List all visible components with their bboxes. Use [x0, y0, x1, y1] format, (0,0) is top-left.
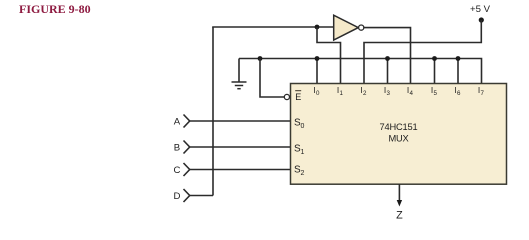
wire bus stub to pin I0 — [316, 59, 318, 84]
wire +5V to pin I2 — [364, 20, 481, 84]
pin label I2 — [360, 85, 367, 97]
svg-text:1: 1 — [340, 90, 344, 97]
wire ground bus to pin I7 — [239, 59, 482, 84]
inverter U1 output bubble — [359, 25, 364, 30]
svg-text:C: C — [174, 165, 181, 176]
+5 V terminal dot — [479, 17, 484, 22]
junction dot bus at enable tap — [258, 56, 263, 61]
pin label S1 — [294, 143, 305, 156]
op-amp U2 74HC151 MUX body — [291, 84, 507, 185]
svg-text:B: B — [174, 143, 180, 154]
wire D vertical rail — [212, 27, 214, 196]
wire bus stub to pin I5 — [434, 59, 436, 84]
pin label E bar — [295, 91, 301, 102]
figure caption FIGURE 9-80 — [19, 2, 91, 16]
wire C to S2 — [190, 169, 291, 171]
svg-text:+5 V: +5 V — [470, 4, 491, 15]
pin label I6 — [454, 85, 461, 97]
wire D top horizontal to inverter input — [212, 26, 334, 28]
wire bus stub to pin I6 — [457, 59, 459, 84]
pin label I3 — [384, 85, 391, 97]
svg-text:7: 7 — [481, 90, 485, 97]
junction dot at inverter input — [315, 25, 320, 30]
wire inverter output to pin I4 — [364, 28, 411, 84]
node A input arrow — [174, 115, 190, 128]
wire D horizontal to rail — [190, 195, 213, 197]
svg-text:FIGURE 9-80: FIGURE 9-80 — [19, 2, 91, 16]
wire output Z with arrow — [397, 184, 402, 206]
pin label S2 — [294, 164, 305, 177]
node B input arrow — [174, 141, 190, 154]
junction dot bus at I5 — [432, 56, 437, 61]
pin label I5 — [431, 85, 438, 97]
svg-text:2: 2 — [301, 170, 305, 177]
wire B to S1 — [190, 146, 291, 148]
svg-text:0: 0 — [316, 90, 320, 97]
svg-text:0: 0 — [301, 123, 305, 130]
svg-text:Z: Z — [396, 209, 403, 221]
pin E enable bubble — [284, 94, 289, 99]
wire A to S0 — [190, 120, 291, 122]
svg-text:D: D — [174, 191, 181, 202]
wire jog from inverter input junction to pin I1 — [317, 27, 341, 84]
svg-text:3: 3 — [387, 90, 391, 97]
pin label I7 — [478, 85, 485, 97]
svg-text:MUX: MUX — [388, 134, 408, 144]
pin label I4 — [407, 85, 414, 97]
svg-text:5: 5 — [434, 90, 438, 97]
ground symbol — [232, 59, 247, 89]
node C input arrow — [174, 163, 190, 176]
svg-text:2: 2 — [363, 90, 367, 97]
svg-text:4: 4 — [410, 90, 414, 97]
svg-text:74HC151: 74HC151 — [380, 122, 418, 132]
svg-text:A: A — [174, 117, 181, 128]
wire enable tap to E bubble — [260, 59, 284, 98]
svg-text:6: 6 — [457, 90, 461, 97]
pin label I0 — [313, 85, 320, 97]
pin label S0 — [294, 117, 305, 130]
junction dot bus at I3 — [385, 56, 390, 61]
+5 V supply label — [470, 4, 491, 23]
pin label I1 — [337, 85, 344, 97]
svg-text:E: E — [295, 92, 301, 102]
inverter U1 triangle — [334, 15, 364, 40]
junction dot bus at I0 — [315, 56, 320, 61]
wire bus stub to pin I3 — [387, 59, 389, 84]
svg-text:1: 1 — [301, 149, 305, 156]
node D input arrow — [174, 189, 190, 202]
junction dot bus at I6 — [456, 56, 461, 61]
